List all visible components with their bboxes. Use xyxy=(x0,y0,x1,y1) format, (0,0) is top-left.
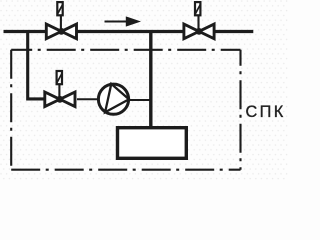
svg-text:СПК: СПК xyxy=(246,103,286,121)
wire: central drop to collector box xyxy=(149,32,152,129)
collector box (tank) xyxy=(118,128,187,159)
wire: valve V3 to pump xyxy=(77,98,98,100)
valve V1 (motorized, on top pipe left) xyxy=(46,2,76,39)
wire: top supply pipe xyxy=(4,30,254,33)
boundary СПК (dash-dot box) xyxy=(11,50,240,170)
valve V3 (motorized, inside boundary) xyxy=(45,71,75,107)
flow arrow xyxy=(105,16,142,26)
wire: left branch down from pipe xyxy=(28,32,45,99)
pump P1 (circle with inscribed triangle) xyxy=(98,84,129,114)
valve V2 (motorized, on top pipe right) xyxy=(184,2,214,39)
wire: pump to central drop xyxy=(129,99,150,101)
